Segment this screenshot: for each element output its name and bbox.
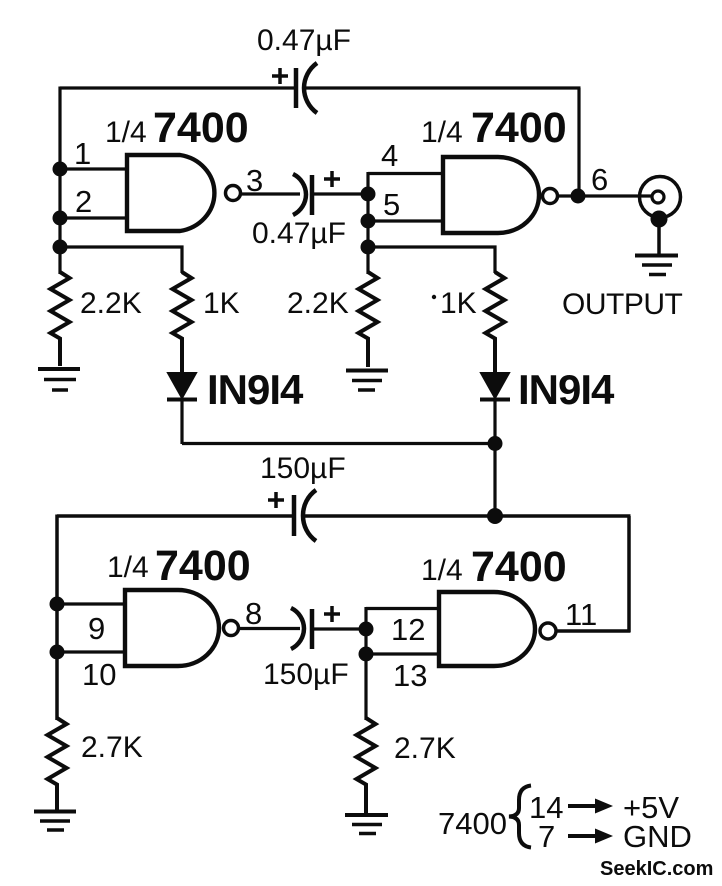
svg-text:8: 8 <box>245 596 262 631</box>
wire: pin 1 input <box>60 167 127 170</box>
svg-text:GND: GND <box>623 819 692 854</box>
resistor R6 2.7K <box>357 718 376 813</box>
wire: pin 9 input <box>57 602 125 605</box>
capacitor C4 150uF top of lower section <box>268 490 316 541</box>
svg-text:7: 7 <box>538 819 555 854</box>
node: dot C3/pin12 <box>359 622 374 637</box>
wire: node to R4 1K <box>368 247 495 273</box>
svg-text:1K: 1K <box>440 287 477 320</box>
ground: under R3 <box>346 371 388 391</box>
wire: lower top rail left of C4 <box>57 514 292 518</box>
wire: diode junction horizontal <box>182 442 495 445</box>
wire: C2 to gate2 input junction <box>314 192 368 195</box>
node: dot to R4 <box>361 240 376 255</box>
svg-text:1/4: 1/4 <box>107 551 149 584</box>
label gate U1a 1/4 7400 <box>105 104 249 152</box>
svg-text:1/4: 1/4 <box>421 116 463 149</box>
svg-text:2.2K: 2.2K <box>80 287 142 320</box>
svg-text:7400: 7400 <box>153 104 249 152</box>
svg-text:13: 13 <box>393 658 427 693</box>
svg-text:7400: 7400 <box>471 104 567 152</box>
nand gate U1d <box>439 592 535 666</box>
label gate U1d 1/4 7400 <box>421 543 567 591</box>
svg-text:7400: 7400 <box>438 806 507 841</box>
wire: gate1 output to C2 <box>241 192 300 195</box>
arrow to +5V <box>568 799 613 814</box>
svg-text:7400: 7400 <box>155 542 251 590</box>
wire: gate3 output to C3 <box>239 627 300 630</box>
svg-text:6: 6 <box>591 162 608 197</box>
node: pin9 dot <box>50 597 65 612</box>
nand gate U1a <box>127 155 214 231</box>
svg-text:150µF: 150µF <box>263 658 349 691</box>
svg-text:5: 5 <box>383 187 400 222</box>
capacitor C3 150uF coupling <box>291 606 340 649</box>
node: dot C2/pin4 <box>361 187 376 202</box>
ground: under R6 <box>345 815 388 834</box>
capacitor C1 0.47uF top <box>272 63 317 113</box>
wire: pin 4 input <box>368 172 443 175</box>
ground: under R5 <box>34 812 76 831</box>
node: pin1 junction dot <box>53 162 68 177</box>
ground: under R1 <box>38 369 80 390</box>
svg-text:1K: 1K <box>203 287 240 320</box>
bubble U1b output <box>543 189 558 204</box>
capacitor C2 0.47uF coupling <box>293 171 340 215</box>
node: pin2 junction dot <box>53 211 68 226</box>
wire: lower left vertical rail <box>55 515 59 721</box>
bubble U1d output <box>540 623 556 639</box>
ground: under connector <box>635 256 678 275</box>
svg-text:1/4: 1/4 <box>421 554 463 587</box>
resistor R2 1K <box>173 272 192 373</box>
svg-text:12: 12 <box>391 612 425 647</box>
wire: gate4 input rail <box>364 607 367 720</box>
wire: gate2 input rail x=368 <box>366 172 369 274</box>
diode D2 1N914 <box>480 373 510 444</box>
svg-text:2.2K: 2.2K <box>287 287 349 320</box>
node: dot pin5 <box>361 214 376 229</box>
wire: feedback vertical down to output node <box>577 88 580 196</box>
svg-text:7400: 7400 <box>471 543 567 591</box>
svg-text:2.7K: 2.7K <box>81 731 143 764</box>
wire: pin 5 input <box>368 219 443 222</box>
wire: junction down to lower section <box>493 444 496 517</box>
svg-text:10: 10 <box>82 657 116 692</box>
label gate U1c 1/4 7400 <box>107 542 251 590</box>
legend: 7400 power pins <box>438 786 563 855</box>
svg-text:OUTPUT: OUTPUT <box>562 288 683 321</box>
svg-text:1: 1 <box>74 136 91 171</box>
node: dot at D2 junction <box>488 436 503 451</box>
svg-text:150µF: 150µF <box>260 452 346 485</box>
wire: top feedback horizontal left of C1 <box>60 86 294 89</box>
svg-text:IN9I4: IN9I4 <box>518 366 615 413</box>
svg-text:IN9I4: IN9I4 <box>207 366 304 413</box>
wire: top feedback horizontal right of C1 <box>305 86 581 89</box>
svg-text:0.47µF: 0.47µF <box>252 217 346 250</box>
wire: left vertical rail x=60 <box>58 87 61 275</box>
svg-text:11: 11 <box>565 597 597 632</box>
wire: pin 2 input <box>60 216 127 219</box>
nand gate U1c <box>125 590 219 666</box>
bubble U1c output <box>224 621 239 636</box>
node: output junction dot <box>571 189 586 204</box>
arrow to GND <box>568 829 613 844</box>
svg-text:2.7K: 2.7K <box>394 732 456 765</box>
svg-text:1/4: 1/4 <box>105 116 147 149</box>
wire: pin 10 input <box>57 650 125 653</box>
wire: lower feedback vertical right <box>627 516 631 632</box>
wire: lower top rail right of C4 <box>304 514 631 518</box>
svg-text:0.47µF: 0.47µF <box>257 24 351 57</box>
node: dot pin13 <box>359 647 374 662</box>
node: dot on lower top wire <box>487 508 503 524</box>
node: pin10 dot <box>50 645 65 660</box>
wire: C3 to gate4 input junction <box>314 627 366 630</box>
connector J1 output jack <box>640 177 681 255</box>
nand gate U1b <box>443 157 539 233</box>
resistor R5 2.7K <box>48 718 67 810</box>
resistor R4 1K <box>486 272 505 373</box>
label R4 1K <box>432 295 436 299</box>
bubble U1a output <box>226 186 241 201</box>
wire: node to R2 1K <box>60 247 182 273</box>
resistor R3 2.2K <box>359 272 378 367</box>
wire: pin 13 input <box>366 652 439 655</box>
svg-text:2: 2 <box>75 184 92 219</box>
node: junction dot to R2 <box>53 240 68 255</box>
diode D1 1N914 <box>167 373 197 444</box>
svg-text:4: 4 <box>381 138 398 173</box>
resistor R1 2.2K <box>51 272 70 366</box>
wire: gate2 output to connector <box>558 194 652 197</box>
svg-text:9: 9 <box>88 611 105 646</box>
wire: gate4 output to feedback <box>557 629 631 633</box>
wire: pin 12 input <box>366 607 439 610</box>
svg-text:SeekIC.com: SeekIC.com <box>600 858 713 880</box>
label gate U1b 1/4 7400 <box>421 104 567 152</box>
